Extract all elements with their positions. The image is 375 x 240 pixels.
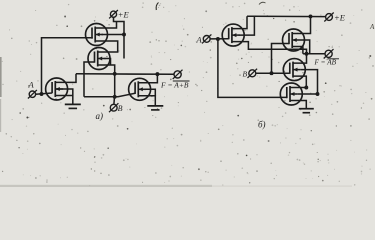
wire T2 source down to bus: [98, 65, 115, 74]
terminal +E right: [324, 13, 333, 22]
wire T6 gate riser to B: [272, 44, 290, 74]
svg-text:B: B: [243, 70, 248, 79]
wire T1 source to T2 drain: [95, 41, 118, 52]
wire T4 drain to bus: [138, 74, 157, 83]
node substrate junction: [316, 92, 320, 96]
node B junction: [113, 95, 117, 99]
label F = A+B with overline: [160, 80, 190, 89]
wire T7 substrate tie: [301, 70, 318, 94]
paper speckle noise: [2, 2, 374, 186]
bottom page-edge shadow: [0, 185, 352, 187]
wire A input right: [210, 38, 229, 40]
ground under T3: [65, 104, 81, 108]
svg-text:F = A+B: F = A+B: [160, 80, 189, 89]
wire T6 substrate tie: [300, 40, 310, 54]
wire A up-left riser to T1 gate: [42, 38, 93, 94]
wire +E rail: [247, 15, 326, 17]
wire T4 substrate tie: [145, 89, 156, 96]
ground under T4: [147, 106, 163, 110]
node T1 substrate junction: [122, 33, 126, 37]
wire T1 substrate tie: [102, 34, 125, 36]
node bus-T4 junction: [155, 72, 159, 76]
wire T2 substrate tie: [105, 59, 111, 66]
transistor T2 (left): [88, 48, 110, 70]
wire T6 source to output: [292, 47, 303, 54]
wire T5 drain to rail: [232, 16, 247, 28]
transistor T8 (right): [280, 83, 302, 105]
svg-text:A: A: [196, 34, 203, 44]
node output junction: [305, 52, 309, 56]
terminal input A left: [28, 90, 37, 99]
wire T4 source to ground: [138, 96, 155, 106]
wire B input to T7 gate: [256, 72, 290, 74]
wire B line to T4 gate: [84, 93, 135, 97]
wire output bus: [76, 73, 174, 76]
transistor T5 input A (right): [222, 24, 244, 46]
svg-text:F = AB: F = AB: [314, 59, 337, 67]
node bus-T2 junction: [113, 72, 117, 76]
terminal input B left: [109, 103, 118, 112]
svg-text:+E: +E: [334, 12, 346, 22]
wire T3 drain to bus: [55, 74, 76, 83]
svg-text:a): a): [96, 111, 104, 121]
wire T2 gate riser to B line: [84, 62, 95, 97]
wire T1 drain to +E corner: [95, 22, 116, 29]
transistor T1 load (left): [86, 24, 108, 46]
terminal output F right: [324, 49, 334, 58]
node A junction right: [216, 37, 220, 41]
stray mark above right circuit: [259, 2, 266, 4]
wire A riser down to T8 gate: [218, 39, 287, 98]
wire T7 source down: [290, 76, 306, 87]
node B junction right: [270, 71, 274, 75]
node A junction: [40, 92, 44, 96]
wire T5 source to output node: [232, 42, 307, 64]
label F = AB with overline: [314, 59, 340, 67]
terminal input A right: [202, 34, 211, 43]
wire B terminal stub: [113, 97, 116, 105]
terminal +E left: [109, 10, 118, 18]
svg-text:A: A: [28, 80, 35, 90]
terminal output F left: [173, 70, 183, 79]
wire T8 source to ground: [290, 101, 306, 109]
node T8 drain junction: [304, 86, 308, 90]
wire output line right: [303, 53, 325, 55]
transistor T7 input B (right): [283, 59, 305, 81]
transistor T3 input A (left): [46, 78, 68, 100]
wire T6 drain to rail: [292, 16, 310, 33]
wire +E feed: [114, 17, 125, 58]
svg-text:+E: +E: [118, 10, 130, 20]
wire A-input to T3 gate: [36, 93, 52, 94]
wire T3 substrate to ground: [55, 89, 73, 104]
terminal input B right: [248, 69, 258, 78]
svg-text:A: A: [369, 23, 375, 31]
wire bus to B-line link: [114, 74, 116, 97]
left page-edge smudge: [0, 57, 2, 132]
ground under T8: [299, 108, 314, 112]
svg-text:B: B: [118, 104, 123, 113]
stray pen mark top: [156, 3, 158, 11]
wire T8 substrate tie: [298, 93, 318, 95]
wire T5 substrate to rail: [239, 16, 255, 35]
svg-text:б): б): [258, 120, 266, 130]
node rail junction: [309, 14, 313, 18]
wire T3 source stub: [55, 95, 73, 97]
transistor T4 input B (left): [129, 78, 151, 100]
transistor T6 load (right): [283, 29, 305, 51]
